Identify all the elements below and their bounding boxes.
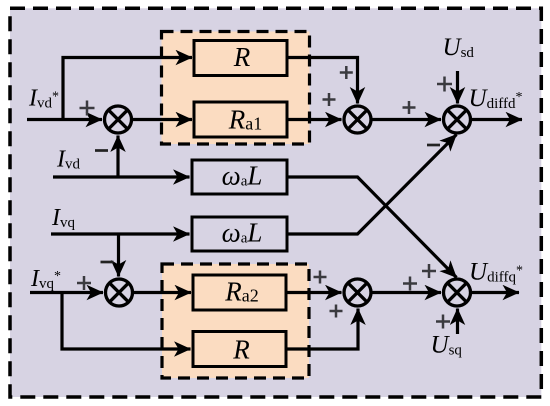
plus sign S6 bottom input (Usq) [436,315,450,329]
wire Ivq* input into summer S4 [30,291,103,294]
dashed orange group box 1 (R, Ra1) [162,32,310,145]
wire Ivd* branch up into block R [63,58,192,120]
minus sign S4 top input [101,261,114,264]
wire Usq up into summer S6 bottom [456,309,459,335]
plus sign S6 left input [403,277,417,291]
wire summer S4 to block Ra2 [133,291,191,294]
minus sign S1 bottom input [95,149,108,152]
wire summer S3 output Udiffd* [471,118,522,121]
plus sign S6 diagonal input [422,264,436,278]
wire Ivd* input into summer S1 [27,118,102,121]
wire Usd down into summer S3 [456,71,459,104]
block Ra2 [193,275,286,310]
block wL (q-axis) [192,217,287,251]
wire R output to summer S2 top [287,58,358,104]
summer S4 [106,279,133,306]
wire summer S1 to block Ra1 [132,118,193,121]
plus sign S3 top input (Usd) [437,77,452,92]
wire Ivd input into block wL1 [53,175,190,178]
dashed orange group box 2 (Ra2, R) [162,264,309,378]
plus sign S1 left input [80,101,95,116]
block R (d-axis) [194,41,287,76]
plus sign S4 left input [77,276,91,290]
svg-text:R: R [232,335,250,365]
summer S2 [344,106,371,133]
summer S6 [444,279,471,306]
wire Ivq input into block wL2 [51,232,190,235]
block Ra1 [194,102,287,137]
wire Ivq* branch down into block R2 [62,293,191,350]
summer S1 [105,106,132,133]
summer S5 [344,279,371,306]
wire summer S5 to summer S6 [372,291,442,294]
wire summer S6 output Udiffq* [471,291,519,294]
plus sign S2 top input [340,66,353,79]
wire summer S2 to summer S3 [372,118,442,121]
plus sign S2 left input [323,93,336,106]
block R (q-axis) [193,332,286,367]
svg-text:R: R [233,42,251,72]
wire Ivd branch up into summer S1 bottom [116,136,119,178]
wire wL1 output diagonal to summer S6 top [287,177,457,278]
plus sign S5 bottom input [330,305,343,318]
plus sign S5 left input [314,271,327,284]
wire Ivq branch down into summer S4 top [117,234,120,277]
plus sign S3 left input [403,101,416,114]
wire Ra2 output to summer S5 [286,291,342,294]
minus sign S3 diagonal input [427,144,440,147]
wire R2 output to summer S5 bottom [286,309,358,350]
block wL (d-axis) [192,160,287,194]
wire Ra1 output to summer S2 [287,118,342,121]
summer S3 [444,106,471,133]
wire wL2 output diagonal to summer S3 bottom [287,135,457,235]
